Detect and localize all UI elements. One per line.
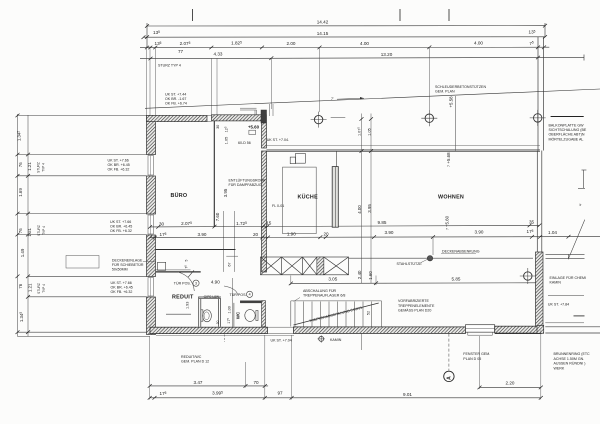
door swing 4 (224, 286, 238, 296)
bottom extension verticals (150, 331, 541, 400)
svg-text:76: 76 (18, 228, 23, 233)
svg-text:35: 35 (529, 220, 535, 225)
svg-text:OK FB. +6.32: OK FB. +6.32 (111, 290, 133, 294)
svg-text:60-D 56: 60-D 56 (238, 141, 251, 145)
svg-text:30: 30 (216, 320, 220, 324)
wing line y115 (18, 114, 147, 116)
svg-text:UK ST. +7.66: UK ST. +7.66 (110, 220, 131, 224)
svg-text:1.21: 1.21 (28, 283, 33, 292)
left wall hatched segment 1 (147, 115, 156, 154)
bottom dim 17.5/3.99/97/9.01 (150, 397, 541, 399)
column C2 (421, 110, 437, 126)
svg-text:7.60: 7.60 (215, 212, 220, 221)
canopy lines above kitchen door (240, 107, 257, 109)
section marker A (444, 371, 454, 381)
svg-text:BÜRO: BÜRO (171, 192, 188, 199)
svg-text:TÜR POS.: TÜR POS. (230, 293, 247, 297)
svg-text:GEM. PLAN: GEM. PLAN (435, 90, 455, 94)
svg-text:UK ST. +7.84: UK ST. +7.84 (548, 303, 569, 307)
left wall hatched segment 4 (147, 297, 156, 335)
svg-text:WERK: WERK (554, 366, 565, 370)
wing line y154 (18, 154, 147, 156)
svg-text:3.47: 3.47 (194, 380, 203, 385)
svg-text:UK ST. +7.66: UK ST. +7.66 (111, 281, 132, 285)
duct lines (222, 211, 224, 272)
south wall corner cap (537, 325, 544, 333)
wc2 west line (233, 303, 235, 327)
svg-text:4.00: 4.00 (360, 41, 369, 46)
wing floor mat rect (66, 256, 99, 269)
interior dim vertical 2 (370, 114, 372, 284)
kitchen counter (283, 167, 317, 234)
kitchen west wall lower (262, 151, 267, 272)
svg-text:1.05: 1.05 (224, 137, 228, 144)
svg-text:1.49: 1.49 (20, 248, 25, 257)
wc1 west wall (198, 297, 200, 327)
sliding door pocket upper line (156, 269, 191, 271)
svg-text:20: 20 (253, 232, 259, 237)
kitchen tall cabinet (332, 167, 338, 228)
svg-text:4: 4 (249, 293, 251, 297)
svg-text:EINLAGE FÜR CHEMI: EINLAGE FÜR CHEMI (550, 276, 587, 280)
svg-text:2.40: 2.40 (357, 270, 362, 279)
wing line y336 (18, 335, 151, 337)
south door gap lines (268, 326, 294, 328)
top wall hatched segment 2 (212, 115, 264, 121)
svg-text:4.00: 4.00 (357, 205, 362, 214)
svg-text:1.21: 1.21 (27, 162, 32, 171)
wc1 east wall (217, 299, 219, 327)
svg-text:OK FB. +6.32: OK FB. +6.32 (108, 168, 130, 172)
wing line y213 (18, 213, 147, 215)
svg-text:1.69: 1.69 (18, 188, 23, 197)
toilet 1 (201, 310, 203, 321)
svg-text:AUSSEN RÜNDNI ): AUSSEN RÜNDNI ) (554, 362, 586, 366)
wing line y175 (18, 175, 147, 177)
dim line 14.15 (143, 36, 545, 38)
svg-text:30: 30 (216, 125, 220, 129)
kitchen sink boxes (290, 157, 295, 164)
svg-text:GEM. PLAN D 12: GEM. PLAN D 12 (181, 360, 209, 364)
svg-text:1.05: 1.05 (368, 128, 372, 135)
balkonplatte note line (551, 116, 584, 118)
buero south wall (156, 249, 236, 251)
stair slope line (294, 303, 379, 325)
bottom dim 2.20 (480, 386, 541, 388)
roof diagonal line (145, 89, 600, 108)
axis mark top 3 (448, 9, 450, 21)
east wall upper double line (536, 151, 538, 253)
ceiling drop line (349, 257, 534, 259)
svg-text:BRUNNENRING (ETC: BRUNNENRING (ETC (554, 352, 591, 356)
kitchen west wall cap (261, 110, 267, 123)
svg-text:1.00: 1.00 (227, 306, 231, 313)
svg-text:OK FB. +6.32: OK FB. +6.32 (110, 229, 132, 233)
svg-text:BALKONPLATTE GW: BALKONPLATTE GW (549, 124, 585, 128)
interior dim vertical 1 (361, 114, 363, 284)
threshold line (156, 334, 294, 336)
svg-text:FÜR SCHIEBETÜR: FÜR SCHIEBETÜR (112, 263, 144, 267)
left chain vertical 1 (17, 114, 19, 337)
buero east wall (213, 121, 215, 227)
svg-text:7': 7' (331, 97, 334, 101)
svg-text:+5.60: +5.60 (444, 215, 449, 227)
svg-text:TREPPENAUFLAGER 6/8: TREPPENAUFLAGER 6/8 (303, 294, 345, 298)
svg-text:52: 52 (367, 311, 371, 315)
kitchen west wall upper (262, 123, 267, 148)
south wall segment 1 (150, 327, 268, 333)
svg-text:OBERFLÄCHE ABT)N: OBERFLÄCHE ABT)N (549, 133, 585, 137)
balcony diagonal (568, 220, 585, 260)
svg-text:14.42: 14.42 (317, 19, 329, 24)
dim line A (150, 225, 540, 227)
dim chain 77/4.33/13.20 long line (140, 57, 584, 58)
pocket slash (188, 270, 194, 277)
stair crossbox row (261, 257, 349, 275)
svg-text:1.04: 1.04 (548, 230, 557, 235)
wc1 north wall (199, 296, 221, 298)
column C1 (311, 112, 327, 128)
svg-text:ABSCHALUNG FÜR: ABSCHALUNG FÜR (303, 289, 337, 293)
svg-text:70: 70 (253, 380, 259, 385)
svg-text:4.90: 4.90 (211, 279, 220, 284)
svg-text:REDUIT: REDUIT (172, 294, 194, 300)
svg-text:SICHTSCHALUNG (BE: SICHTSCHALUNG (BE (549, 128, 587, 132)
wing line y276 (28, 275, 147, 277)
left chain vertical 2 (27, 115, 29, 337)
svg-text:DECKENEINLAGE: DECKENEINLAGE (112, 258, 143, 262)
chain ticks (16, 114, 31, 334)
svg-text:5: 5 (185, 259, 189, 261)
svg-text:OK BR. +6.45: OK BR. +6.45 (111, 286, 133, 290)
svg-text:KAMIN: KAMIN (330, 338, 342, 342)
sliding door pocket rail (156, 271, 201, 273)
bottom dim 3.47/70 (150, 385, 268, 387)
svg-text:20: 20 (323, 231, 329, 236)
duct stub line (226, 255, 238, 257)
svg-text:1.21: 1.21 (27, 227, 32, 236)
svg-text:A: A (446, 376, 452, 380)
top wall hatched segment 1 (147, 115, 208, 121)
east wall hatched (536, 252, 544, 331)
svg-text:KAMIN: KAMIN (550, 280, 562, 284)
svg-text:1.60: 1.60 (368, 271, 373, 280)
svg-text:PLAN D 05: PLAN D 05 (463, 357, 481, 361)
dim chain 2.07/1.82/2.00/4.00/4.00 (140, 46, 549, 48)
left wall hatched segment 3 (147, 235, 156, 277)
svg-text:WC: WC (235, 311, 240, 319)
svg-text:5.85: 5.85 (452, 277, 461, 282)
svg-text:77: 77 (178, 49, 184, 54)
wing line y234 (18, 234, 147, 236)
wc2 east wall (262, 301, 266, 327)
wing line y332 (18, 331, 151, 333)
dim line 14.42 (147, 23, 545, 48)
svg-text:TREPPENELEMENTE: TREPPENELEMENTE (398, 304, 435, 308)
svg-text:GIPS L8W.: GIPS L8W. (204, 295, 220, 299)
stairs (291, 301, 382, 327)
svg-text:50x50MM: 50x50MM (112, 268, 128, 272)
kamin marker circle (319, 336, 324, 341)
svg-text:OK BR. -1.67: OK BR. -1.67 (165, 97, 186, 101)
svg-text:OK BR. +6.45: OK BR. +6.45 (110, 225, 132, 229)
kamin niche lines (546, 253, 585, 255)
wc divider dim line (232, 278, 234, 327)
svg-text:UK ST. +7.44: UK ST. +7.44 (165, 93, 186, 97)
right wall extension double line (537, 37, 539, 151)
svg-text:67: 67 (227, 262, 231, 266)
svg-text:FÜR DAMPFABZUG: FÜR DAMPFABZUG (229, 183, 262, 187)
svg-text:4.33: 4.33 (214, 51, 223, 56)
column C4 (520, 268, 536, 284)
svg-text:9.85: 9.85 (378, 220, 387, 225)
axis mark top 1 (192, 9, 194, 21)
svg-text:3.05: 3.05 (328, 277, 337, 282)
svg-text:REDUIT/WC: REDUIT/WC (181, 355, 202, 359)
svg-text:4.00: 4.00 (474, 41, 483, 46)
svg-text:2.00: 2.00 (287, 41, 296, 46)
svg-text:STURZ: STURZ (37, 162, 41, 173)
right top line y295 (548, 295, 584, 297)
stahlstuetze dim stub (432, 237, 434, 255)
svg-text:ACHSE 1.50M GN.: ACHSE 1.50M GN. (554, 357, 585, 361)
svg-text:STURZ TYP 4: STURZ TYP 4 (158, 64, 181, 68)
wing line y296 (28, 296, 147, 298)
svg-text:3.95: 3.95 (223, 188, 228, 197)
svg-text:KÜCHE: KÜCHE (298, 194, 319, 201)
reduit bench (166, 313, 191, 315)
column axis stub (331, 117, 346, 119)
window W3 (148, 278, 154, 297)
left wall hatched segment 2 (147, 176, 156, 214)
svg-text:TYP 4: TYP 4 (42, 284, 46, 293)
balcony bracket (582, 169, 587, 171)
south wall segment 3 (495, 326, 542, 333)
svg-text:76: 76 (18, 283, 23, 288)
svg-text:+5.58: +5.58 (448, 96, 453, 108)
svg-text:TÜR POS.: TÜR POS. (174, 282, 191, 286)
north facade glazing lines (267, 145, 541, 147)
dashed stub left (224, 335, 226, 343)
window axis dashed (448, 334, 450, 371)
svg-text:UK ST. +7.66: UK ST. +7.66 (108, 159, 129, 163)
svg-text:VORFABRIZIERTE: VORFABRIZIERTE (398, 299, 429, 303)
svg-text:13.20: 13.20 (381, 52, 393, 57)
svg-text:MÖRTELZUGABE AL: MÖRTELZUGABE AL (549, 137, 584, 141)
svg-text:OK FB. +6.74: OK FB. +6.74 (165, 102, 187, 106)
toilet 2 (245, 310, 255, 322)
svg-text:FL 0-01: FL 0-01 (272, 204, 284, 208)
crossbox hatch strip (317, 257, 324, 275)
svg-text:UK ST. +7.04: UK ST. +7.04 (271, 339, 292, 343)
svg-text:TYP 4: TYP 4 (42, 163, 46, 172)
axis mark top 2 (399, 9, 401, 21)
svg-text:GEMÄSS PLAN D20: GEMÄSS PLAN D20 (398, 309, 431, 313)
south wall segment 2 (294, 327, 466, 334)
south window (466, 325, 495, 333)
svg-text:76: 76 (18, 162, 23, 167)
top wall end cap (264, 115, 267, 123)
svg-text:STAHLSTÜTZE: STAHLSTÜTZE (397, 262, 423, 266)
window W2 (148, 215, 154, 234)
se corner lines (545, 322, 584, 324)
svg-text:9.01: 9.01 (403, 392, 412, 397)
svg-text:STURZ: STURZ (37, 225, 41, 236)
svg-text:TYP 4: TYP 4 (42, 226, 46, 235)
svg-text:3.90: 3.90 (475, 230, 484, 235)
svg-text:3.90: 3.90 (385, 230, 394, 235)
column C3 (530, 110, 546, 126)
svg-text:1.90: 1.90 (287, 232, 296, 237)
svg-text:DECKENABSENKUNG: DECKENABSENKUNG (442, 250, 480, 254)
extension lines from top dims (147, 47, 430, 116)
top wall gap (207, 114, 212, 116)
dim line B (150, 237, 600, 238)
wc2 door head (240, 301, 263, 303)
svg-text:15: 15 (266, 221, 272, 226)
svg-text:30: 30 (159, 221, 165, 226)
svg-text:OK BR. +6.45: OK BR. +6.45 (108, 163, 130, 167)
svg-text:3.95: 3.95 (367, 204, 372, 213)
small dash right (574, 315, 585, 317)
svg-text:ENTLÜFTUNGSROHR: ENTLÜFTUNGSROHR (229, 179, 267, 183)
svg-text:+5.68: +5.68 (446, 152, 451, 164)
svg-text:3: 3 (195, 282, 197, 286)
svg-text:97: 97 (277, 391, 283, 396)
svg-text:WOHNEN: WOHNEN (438, 195, 464, 201)
svg-text:3.90: 3.90 (198, 232, 207, 237)
steel column dot (427, 256, 432, 261)
svg-text:SCHLEUDERBETONSTÜTZEN: SCHLEUDERBETONSTÜTZEN (435, 85, 486, 89)
svg-text:7: 7 (445, 228, 449, 230)
svg-text:7: 7 (447, 165, 451, 167)
dim line 3.05 / 5.85 (291, 282, 538, 285)
stub below wall (360, 334, 362, 350)
svg-text:UK ST. +7.04.: UK ST. +7.04. (267, 138, 289, 142)
window W1 (148, 156, 154, 176)
svg-text:2.20: 2.20 (506, 381, 515, 386)
svg-text:1.93: 1.93 (186, 302, 190, 309)
svg-text:STURZ: STURZ (37, 283, 41, 294)
svg-text:FENSTER GEM.: FENSTER GEM. (463, 352, 490, 356)
door swing 3 (178, 272, 194, 291)
svg-text:+5.60: +5.60 (248, 124, 260, 129)
pocket end box (158, 262, 166, 270)
svg-text:14.15: 14.15 (317, 31, 329, 36)
south window sill (468, 332, 493, 335)
